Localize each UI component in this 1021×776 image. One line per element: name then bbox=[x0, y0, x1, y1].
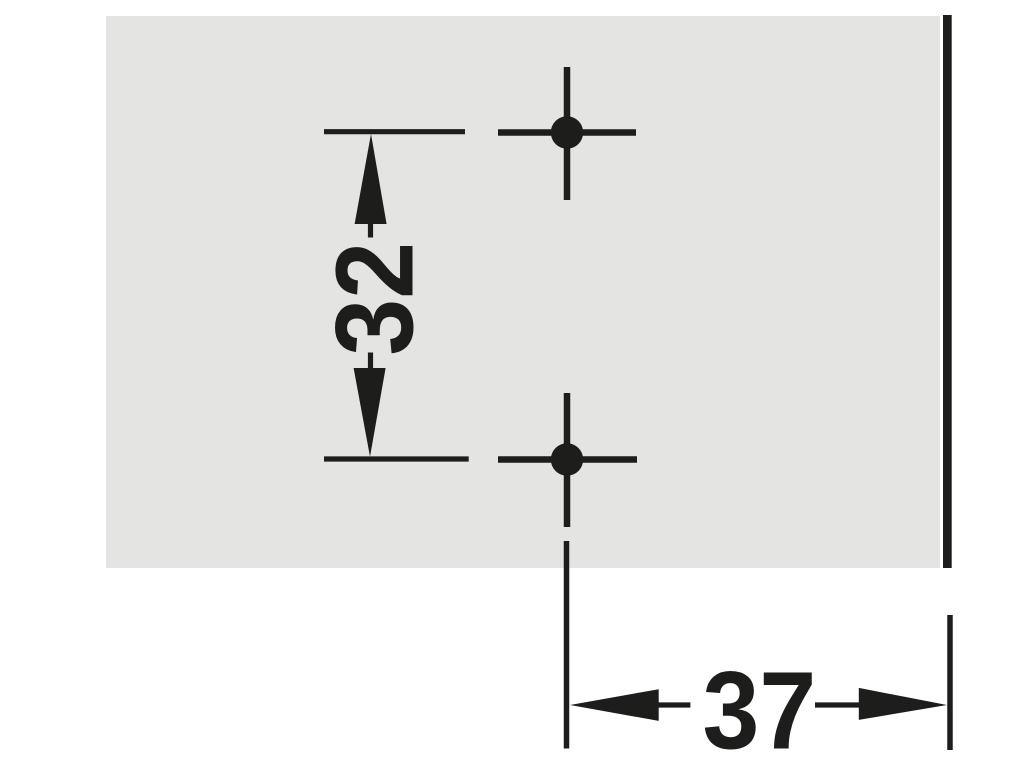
svg-text:32: 32 bbox=[313, 242, 436, 356]
svg-text:37: 37 bbox=[703, 649, 817, 772]
